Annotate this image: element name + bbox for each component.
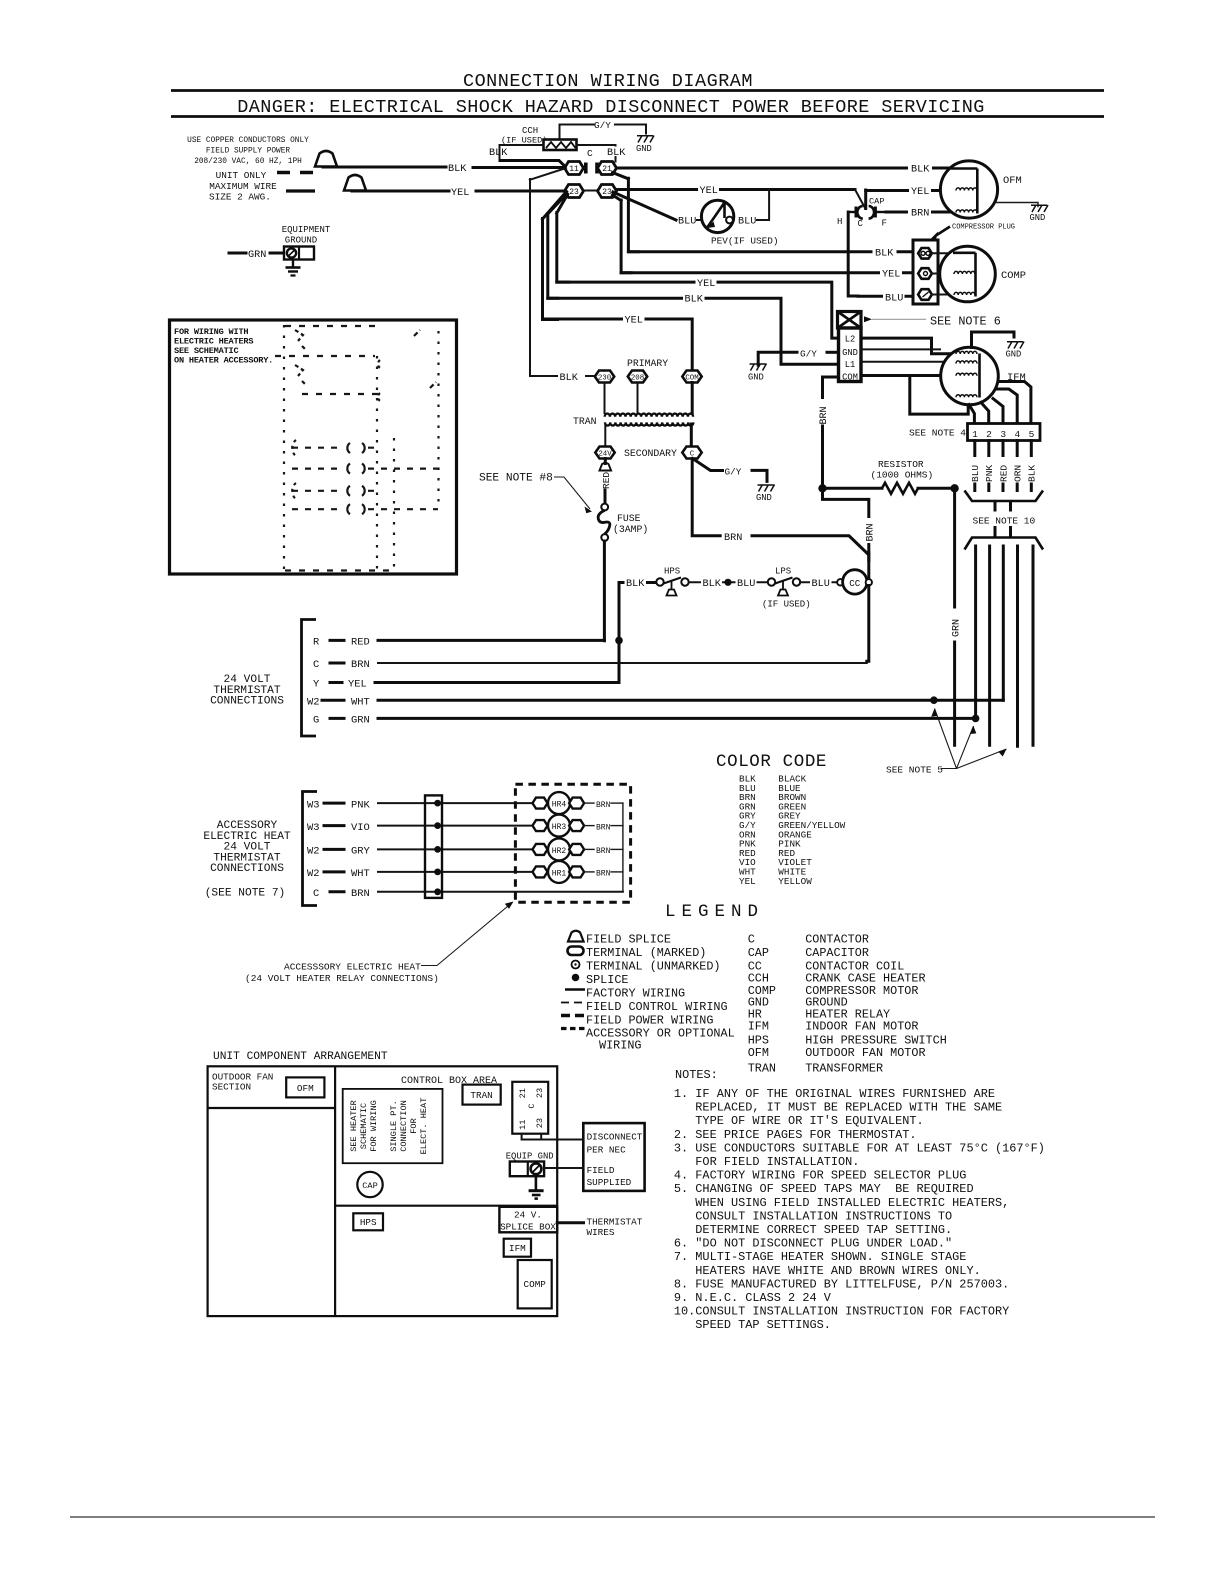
wire 24V to splice (604, 459, 607, 464)
svg-text:11: 11 (518, 1120, 528, 1130)
BLU row to compressor plug (858, 295, 913, 298)
wire Y row riser to HPS (619, 583, 656, 683)
svg-text:6. "DO NOT DISCONNECT PLUG UND: 6. "DO NOT DISCONNECT PLUG UNDER LOAD." (674, 1237, 952, 1251)
wire GRN to lug (270, 252, 284, 255)
field splice S2 (344, 175, 366, 191)
wire strip GND to G/Y ground (827, 351, 838, 354)
svg-text:BRN: BRN (819, 406, 830, 424)
PEV terminal left (702, 217, 709, 224)
svg-text:BLK: BLK (875, 249, 894, 260)
svg-text:5. CHANGING OF SPEED TAPS MAY: 5. CHANGING OF SPEED TAPS MAY BE REQUIRE… (674, 1182, 974, 1196)
svg-text:GRY: GRY (351, 846, 370, 858)
svg-text:COMP: COMP (1001, 270, 1026, 282)
svg-text:10.CONSULT INSTALLATION INSTRU: 10.CONSULT INSTALLATION INSTRUCTION FOR … (674, 1305, 1009, 1319)
speed selector plug 1 2 3 4 5 (968, 424, 1041, 441)
svg-text:W2: W2 (307, 696, 319, 708)
wire IFM to plug pin 5 (1000, 382, 1031, 424)
svg-text:3. USE CONDUCTORS SUITABLE FOR: 3. USE CONDUCTORS SUITABLE FOR AT LEAST … (674, 1141, 1045, 1155)
svg-text:USE COPPER CONDUCTORS ONLY: USE COPPER CONDUCTORS ONLY (187, 137, 309, 145)
svg-text:(1000 OHMS): (1000 OHMS) (871, 470, 934, 481)
COMP box (518, 1260, 552, 1308)
svg-text:YEL: YEL (911, 187, 929, 198)
label YEL at OFM (909, 185, 931, 196)
svg-text:CONNECTIONS: CONNECTIONS (210, 863, 284, 875)
svg-text:11: 11 (569, 165, 579, 174)
plug terminal 1 (918, 248, 932, 259)
svg-text:BRN: BRN (596, 823, 611, 832)
wire 11 to BLK riser (to TRAN 230) (530, 168, 566, 376)
wire G/Y to ground (758, 352, 797, 365)
label YEL on row (698, 185, 719, 195)
svg-text:GND: GND (636, 144, 652, 154)
svg-text:BRN: BRN (596, 847, 611, 856)
bundle stubs above note 10 (995, 502, 1011, 510)
svg-text:21: 21 (518, 1088, 528, 1098)
wire resistor left (823, 487, 883, 490)
terminal 23 left (565, 185, 584, 198)
wire W2 WHT to HR1 (378, 871, 534, 873)
label YEL comp (880, 268, 902, 279)
svg-text:WIRING: WIRING (599, 1039, 641, 1053)
svg-text:GROUND: GROUND (285, 236, 317, 246)
svg-text:WHT: WHT (351, 868, 370, 880)
wire 23R to YEL row (to comp plug) (613, 195, 632, 273)
svg-text:YEL: YEL (348, 679, 367, 691)
outdoor fan motor OFM (940, 161, 997, 218)
bundle stubs below note 10 (995, 528, 1011, 536)
svg-text:W3: W3 (307, 822, 319, 834)
svg-text:1. IF ANY OF THE ORIGINAL WIRE: 1. IF ANY OF THE ORIGINAL WIRES FURNISHE… (674, 1087, 995, 1101)
svg-text:FACTORY WIRING: FACTORY WIRING (586, 987, 685, 1001)
junction dot GRN riser (950, 484, 958, 492)
junction dot BRN riser at resistor (818, 484, 826, 492)
svg-text:BRN: BRN (596, 801, 611, 810)
svg-text:Y: Y (313, 679, 320, 691)
24V splice box (499, 1207, 557, 1233)
contactor arrangement box (512, 1082, 548, 1134)
wire C BRN to HR common (378, 891, 623, 893)
svg-text:BRN: BRN (351, 888, 370, 900)
terminal 208 (628, 371, 647, 383)
wire OFM to ground (996, 203, 1039, 207)
CC riser to contactor coil (867, 553, 870, 578)
junction dots at connector (434, 800, 441, 896)
compressor motor COMP (940, 246, 996, 302)
svg-text:INDOOR FAN MOTOR: INDOOR FAN MOTOR (805, 1020, 918, 1034)
CC terminal right (866, 579, 872, 585)
svg-text:1: 1 (972, 429, 978, 440)
svg-text:YEL: YEL (625, 315, 643, 326)
svg-text:REPLACED, IT MUST BE REPLACED: REPLACED, IT MUST BE REPLACED WITH THE S… (695, 1101, 1002, 1115)
leader to fuse (554, 477, 590, 509)
svg-text:23: 23 (535, 1118, 545, 1128)
svg-text:BLK: BLK (685, 295, 704, 306)
svg-text:FUSE: FUSE (617, 513, 641, 524)
unit outer box (208, 1066, 558, 1316)
BLK row to strip L1 (548, 298, 838, 364)
cable brace upper (965, 491, 1044, 502)
cable brace lower (965, 538, 1044, 550)
wire 23R YEL row to PEV riser and cap (617, 188, 856, 191)
high pressure switch HPS (656, 567, 688, 596)
heater relay HR3 (533, 815, 623, 837)
wire cap F to OFM BRN (886, 211, 950, 214)
wire W2 row to speed plug wire 3 (378, 699, 1003, 702)
legend field control wiring symbol (561, 1002, 582, 1004)
svg-text:OFM: OFM (297, 1083, 314, 1094)
svg-text:FIELD SPLICE: FIELD SPLICE (586, 933, 671, 947)
transformer TRAN primary winding (605, 414, 693, 417)
fan terminal strip (839, 328, 862, 383)
wire 23L to YEL riser (to L2) (557, 195, 569, 283)
wire BLK supply to contactor (323, 166, 446, 169)
compressor plug body (913, 240, 938, 304)
svg-text:DISCONNECT: DISCONNECT (587, 1132, 643, 1143)
bundle wire 5 (1032, 546, 1035, 745)
svg-text:SEE NOTE 4: SEE NOTE 4 (909, 428, 966, 439)
label BLK on L1 row (683, 293, 705, 304)
terminal 11 (565, 162, 584, 175)
terminal 23 right (598, 185, 617, 198)
svg-text:C: C (313, 659, 319, 671)
svg-text:SEE NOTE 5: SEE NOTE 5 (886, 765, 943, 776)
wire BRN junction down to CC riser (823, 488, 869, 560)
svg-text:TRAN: TRAN (748, 1062, 776, 1076)
svg-text:BLK: BLK (607, 148, 626, 159)
heater connection text box (343, 1089, 443, 1163)
svg-text:ORN: ORN (1013, 465, 1024, 482)
svg-text:PNK: PNK (984, 465, 995, 482)
wire cap C up to YEL row (864, 190, 867, 209)
svg-text:EQUIPMENT: EQUIPMENT (282, 225, 331, 235)
footer rule (70, 1516, 1155, 1518)
CAP circle (357, 1172, 382, 1197)
svg-text:SINGLE PT.: SINGLE PT. (389, 1100, 399, 1152)
svg-text:G/Y: G/Y (800, 348, 817, 359)
svg-text:UNIT COMPONENT ARRANGEMENT: UNIT COMPONENT ARRANGEMENT (213, 1051, 388, 1063)
YEL riser to COM hex (543, 319, 693, 371)
svg-text:COLOR CODE: COLOR CODE (716, 752, 827, 772)
svg-text:9. N.E.C. CLASS 2 24 V: 9. N.E.C. CLASS 2 24 V (674, 1291, 832, 1305)
svg-text:BLK: BLK (1027, 465, 1038, 482)
svg-text:SPLICE: SPLICE (586, 973, 628, 987)
arrow to compressor plug (936, 227, 950, 236)
svg-text:CCH: CCH (522, 126, 538, 136)
wire 23L to BLK riser (to L1) (548, 194, 567, 299)
YEL row to strip L2 (557, 282, 838, 338)
svg-text:BLK: BLK (626, 579, 645, 590)
svg-text:WIRES: WIRES (587, 1227, 615, 1238)
field splice below 24V (600, 463, 612, 471)
wire YEL supply (352, 190, 449, 193)
resistor 1000 ohms (882, 483, 918, 494)
wire to 230 hex (586, 375, 596, 377)
wire strip COM to BRN riser (823, 377, 839, 399)
svg-text:BRN: BRN (351, 659, 370, 671)
label BLK comp (873, 247, 897, 258)
label BLU right (810, 577, 832, 588)
svg-text:L1: L1 (845, 360, 856, 370)
PEV valve (701, 200, 733, 232)
svg-text:PEV(IF USED): PEV(IF USED) (711, 236, 779, 247)
wire YEL diagonal into capacitor C (855, 190, 865, 209)
wire G/Y to ground (615, 125, 646, 134)
svg-text:BRN: BRN (866, 523, 877, 541)
wire LPS to CC (800, 581, 837, 583)
HR common vertical (622, 803, 624, 892)
wire C hex down to BRN row (692, 459, 720, 536)
svg-text:3: 3 (1000, 429, 1006, 440)
OFM box (286, 1077, 324, 1097)
junction dot on G row (972, 715, 980, 723)
svg-text:VIO: VIO (351, 822, 370, 834)
wire C to G/Y (693, 459, 723, 471)
svg-text:230: 230 (598, 375, 611, 383)
accessory dashed box (515, 784, 630, 902)
svg-text:CONNECTION WIRING DIAGRAM: CONNECTION WIRING DIAGRAM (463, 71, 753, 92)
svg-text:23: 23 (602, 188, 612, 197)
svg-text:C: C (748, 933, 755, 947)
wire strip COM to IFM coil3 and coil4 (861, 376, 968, 415)
svg-text:OFM: OFM (1003, 175, 1022, 187)
wire PEV to YEL row (757, 190, 769, 221)
svg-text:CAP: CAP (869, 197, 884, 207)
svg-text:YEL: YEL (451, 188, 469, 199)
svg-text:IFM: IFM (509, 1243, 526, 1254)
wire GRN (229, 252, 246, 255)
electric heater info box (170, 320, 457, 574)
heater relay HR4 (533, 792, 623, 814)
svg-text:FOR FIELD INSTALLATION.: FOR FIELD INSTALLATION. (695, 1155, 859, 1169)
svg-text:G/Y: G/Y (594, 120, 611, 131)
wire IFM to plug pin 1 (969, 405, 974, 424)
wire C row to CC riser (378, 662, 867, 664)
plug wires below labels (975, 484, 1032, 491)
label YEL on COM riser row (623, 314, 645, 324)
svg-text:ON HEATER ACCESSORY.: ON HEATER ACCESSORY. (174, 356, 273, 366)
svg-text:CONSULT INSTALLATION INSTRUCTI: CONSULT INSTALLATION INSTRUCTIONS TO (695, 1209, 952, 1223)
wire COM to primary (691, 383, 694, 414)
heater plug connector bar (425, 795, 442, 898)
plug tails (975, 441, 1032, 456)
internal overload X-box (838, 312, 862, 329)
svg-text:EQUIP GND: EQUIP GND (506, 1151, 554, 1161)
svg-text:(24 VOLT HEATER RELAY CONNECTI: (24 VOLT HEATER RELAY CONNECTIONS) (245, 973, 439, 984)
svg-text:GRN: GRN (351, 715, 370, 727)
svg-text:BLK: BLK (489, 148, 508, 159)
label BRN rotated on riser (817, 399, 828, 426)
svg-text:LEGEND: LEGEND (665, 902, 764, 922)
TRAN box (463, 1085, 501, 1105)
svg-text:YEL: YEL (697, 279, 715, 290)
svg-text:OUTDOOR FAN MOTOR: OUTDOOR FAN MOTOR (805, 1046, 925, 1060)
equipment ground lug (284, 247, 314, 260)
legend abbreviations (748, 933, 947, 1076)
svg-text:YEL: YEL (739, 876, 756, 887)
unit vertical divider (334, 1066, 336, 1316)
svg-text:BLK: BLK (703, 579, 722, 590)
svg-text:BLK: BLK (560, 373, 579, 384)
wire 23L to YEL riser (to COM) (543, 192, 567, 320)
legend field power wiring symbol (561, 1014, 584, 1018)
wire BLK label to terminal 11 (473, 166, 566, 169)
svg-text:CC: CC (849, 578, 861, 589)
ground GND at OFM (1030, 205, 1049, 223)
wire BLK feed to 230 (543, 375, 557, 377)
svg-text:SEE HEATER: SEE HEATER (349, 1100, 359, 1152)
wire Y row to HPS riser (375, 681, 619, 684)
svg-text:YEL: YEL (882, 270, 900, 281)
wire W3 PNK to HR4 (378, 802, 534, 804)
label BRN rotated on CC riser (863, 518, 874, 543)
wire CCH right leg to terminal 21 (577, 145, 616, 162)
wire YEL label to terminal 23 (476, 190, 566, 193)
label YEL on L2 row (696, 277, 717, 287)
svg-text:RED: RED (601, 472, 612, 489)
svg-text:C: C (587, 148, 593, 159)
ground below lug (529, 1176, 544, 1198)
svg-text:GRN: GRN (952, 619, 963, 637)
svg-text:GND: GND (1006, 350, 1022, 360)
svg-text:ELECTRIC HEATERS: ELECTRIC HEATERS (174, 337, 253, 347)
terminal 21 (598, 162, 617, 175)
wire between 23 terminals (584, 190, 599, 192)
svg-text:PNK: PNK (351, 799, 370, 811)
rotated heater text (349, 1098, 429, 1155)
svg-text:W3: W3 (307, 799, 319, 811)
heater relay HR1 (533, 861, 623, 883)
svg-text:CAP: CAP (362, 1181, 377, 1191)
equip gnd lug (510, 1162, 544, 1177)
fuse FUSE 3AMP (598, 510, 610, 534)
svg-text:SPLICE BOX: SPLICE BOX (500, 1222, 556, 1233)
field power dashed wire YEL (286, 189, 315, 192)
svg-text:BLU: BLU (885, 293, 903, 304)
svg-text:F: F (882, 219, 887, 229)
svg-text:TRAN: TRAN (470, 1090, 492, 1101)
svg-text:DANGER: ELECTRICAL SHOCK HAZAR: DANGER: ELECTRICAL SHOCK HAZARD DISCONNE… (237, 97, 985, 118)
wire secondary left to 24V (604, 424, 606, 447)
svg-text:W2: W2 (307, 868, 319, 880)
svg-text:C: C (858, 219, 864, 229)
crank case heater CCH element (544, 140, 577, 151)
bundle wire 4 (1016, 546, 1019, 746)
terminal COM (682, 371, 701, 383)
svg-text:FOR WIRING: FOR WIRING (369, 1100, 379, 1152)
terminal C secondary (682, 447, 701, 459)
svg-text:MAXIMUM WIRE: MAXIMUM WIRE (209, 181, 277, 192)
svg-text:TRANSFORMER: TRANSFORMER (805, 1062, 883, 1076)
svg-text:OFM: OFM (748, 1046, 769, 1060)
svg-text:SEE NOTE 6: SEE NOTE 6 (930, 315, 1001, 329)
accessory heat bracket (303, 792, 318, 906)
label BRN at OFM (908, 207, 931, 218)
svg-text:FIELD: FIELD (587, 1165, 615, 1176)
svg-text:208: 208 (631, 375, 644, 383)
svg-text:BLU: BLU (812, 579, 830, 590)
svg-text:UNIT ONLY: UNIT ONLY (216, 170, 267, 181)
ground symbol below lug (286, 260, 301, 276)
svg-text:G: G (313, 715, 319, 727)
DISCONNECT PER NEC box (583, 1123, 644, 1191)
terminal 24V (595, 447, 614, 459)
wire BRN to CC riser (752, 536, 868, 554)
wire 23R diagonal to PEV BLU (613, 192, 676, 220)
arrow SEE NOTE 6 (864, 316, 872, 322)
svg-text:RED: RED (998, 465, 1009, 482)
svg-text:BLU: BLU (738, 217, 756, 228)
svg-text:BRN: BRN (724, 533, 742, 544)
svg-text:PER NEC: PER NEC (587, 1145, 626, 1156)
CC riser down to C row (867, 586, 869, 662)
wire YEL row to OFM (866, 189, 942, 192)
svg-text:TERMINAL (MARKED): TERMINAL (MARKED) (586, 946, 706, 960)
field supply note text (187, 137, 309, 166)
svg-text:R: R (313, 637, 319, 649)
capacitor CAP (848, 206, 886, 219)
svg-text:TERMINAL (UNMARKED): TERMINAL (UNMARKED) (586, 960, 721, 974)
label ACCESSORY ELECTRIC HEAT ... (203, 820, 291, 875)
labels BLU PNK RED ORN BLK rotated (970, 465, 1037, 482)
CC terminal left (837, 579, 843, 585)
plug terminal 2 (918, 268, 932, 279)
svg-text:SCHEMATIC: SCHEMATIC (359, 1103, 369, 1149)
svg-text:4. FACTORY WIRING FOR SPEED SE: 4. FACTORY WIRING FOR SPEED SELECTOR PLU… (674, 1169, 967, 1183)
bundle wire 2 (988, 546, 991, 745)
svg-text:GND: GND (748, 373, 764, 383)
legend factory wiring symbol (565, 988, 585, 991)
svg-text:BRN: BRN (596, 870, 611, 879)
svg-text:WHEN USING FIELD INSTALLED ELE: WHEN USING FIELD INSTALLED ELECTRIC HEAT… (695, 1196, 1009, 1210)
svg-text:21: 21 (602, 165, 612, 174)
svg-text:HPS: HPS (360, 1217, 377, 1228)
svg-text:SECTION: SECTION (212, 1082, 251, 1093)
svg-text:FIELD POWER WIRING: FIELD POWER WIRING (586, 1014, 713, 1028)
wire 21 to BLK row (to comp plug) (613, 173, 639, 252)
svg-text:SECONDARY: SECONDARY (624, 448, 677, 459)
wire G/Y to ground (752, 470, 767, 481)
wire G/Y from CCH top (560, 125, 595, 141)
svg-text:ELECT. HEAT: ELECT. HEAT (419, 1098, 429, 1155)
contact bars between 11 and 21 (584, 163, 600, 174)
plug terminal 3 (918, 289, 932, 300)
svg-text:H: H (837, 217, 842, 227)
svg-text:TYPE OF WIRE OR IT'S EQUIVALEN: TYPE OF WIRE OR IT'S EQUIVALENT. (695, 1114, 923, 1128)
svg-text:SUPPLIED: SUPPLIED (587, 1177, 632, 1188)
low pressure switch LPS (762, 567, 811, 610)
heater box caption (174, 327, 273, 366)
wire R row to fuse (378, 639, 604, 642)
field power dashed wire BLK (277, 171, 313, 174)
wire resistor right to GRN junction (918, 487, 955, 490)
header rule bottom (171, 115, 1104, 118)
wire G row to speed plug wire 1 (378, 717, 976, 720)
svg-text:(IF USED): (IF USED) (762, 600, 811, 610)
wire IFM top to ground (972, 332, 1015, 348)
svg-text:HEATERS HAVE WHITE AND BROWN W: HEATERS HAVE WHITE AND BROWN WIRES ONLY. (695, 1264, 980, 1278)
svg-text:BLK: BLK (448, 164, 467, 175)
wire IFM to plug pin 2 (981, 403, 989, 424)
bundle wire 3 to W2 row (1002, 546, 1005, 700)
svg-text:TRAN: TRAN (573, 416, 597, 427)
wire 21 to OFM BLK row (617, 167, 951, 170)
control box divider (335, 1205, 557, 1207)
svg-text:(SEE NOTE 7): (SEE NOTE 7) (205, 888, 286, 900)
svg-text:SEE SCHEMATIC: SEE SCHEMATIC (174, 346, 238, 356)
wire CCH return to terminal 11 (500, 161, 566, 168)
indoor fan motor IFM (941, 347, 999, 405)
svg-text:8. FUSE MANUFACTURED BY LITTEL: 8. FUSE MANUFACTURED BY LITTELFUSE, P/N … (674, 1277, 1009, 1291)
